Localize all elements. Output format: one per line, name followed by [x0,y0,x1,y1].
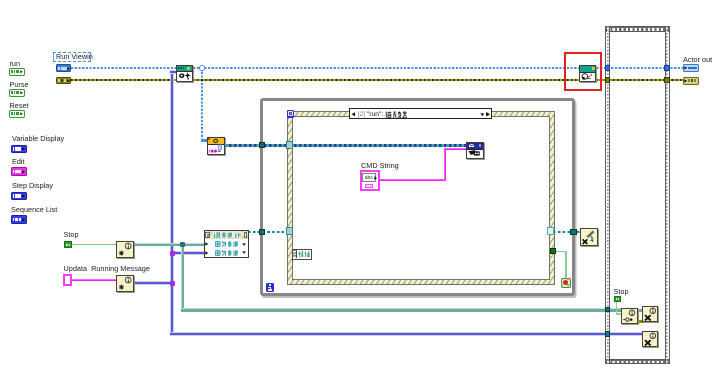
tunnel: sequence right blue [664,65,670,71]
wire: teal dashed reg refnum left of loop [248,231,288,233]
tunnel: loop right reg refnum [570,229,576,235]
wire: olive error wire horizontal [71,79,683,81]
event data node 新值 [292,249,312,260]
indicator: error out [683,77,699,85]
wire: pink CMD string horizontal [379,179,446,181]
op: Run actor vi [176,65,193,83]
wire: purple horizontal bottom to sequence [170,332,642,336]
tunnel: sequence left blue [605,65,611,71]
event structure border [287,111,555,285]
red highlight rectangle [564,52,602,91]
label: Sequence List [11,206,57,214]
control terminal: Variable Display I32 [11,145,27,153]
tunnel: loop left braided [259,142,265,148]
CMD String control terminal [360,170,380,190]
wire: pink CMD string vertical [444,148,446,181]
control terminal: Sequence List I32 [11,215,27,223]
loop stop condition terminal [561,278,571,288]
tunnel: loop left reg refnum [259,229,265,235]
wire: green stop to create-event-1 [71,244,116,245]
op: destroy user event upper [642,306,658,322]
label: Run Viewin [56,53,93,61]
wire: teal horizontal to sequence [181,308,622,311]
event structure timeout terminal [287,110,295,118]
wire: purple to register row2 [172,251,204,255]
op: red-marked caller vi [579,65,596,83]
flat sequence structure [605,26,670,32]
wire: pink updata to create-event-2 [71,279,116,281]
tunnel: sequence left purple wire [605,331,611,337]
label: Variable Display [12,135,64,143]
wire: blue dashed vertical branch [201,68,203,140]
wire: purple stub to Run vi [170,70,177,74]
label: Purse [10,81,29,89]
label: Edit [12,158,25,166]
error-in cluster terminal [56,77,72,84]
tunnel: event left dynamic event terminal [286,227,294,235]
wire: teal dashed reg refnum right of event [553,231,581,233]
control terminal: Updata Running Message string [63,274,73,287]
wire: purple from create-event-2 output [134,281,172,285]
wire: blue dashed actor wire horizontal [71,67,683,69]
wire: olive stub generate to destroy [637,320,643,322]
label: Updata Running Message [64,265,150,273]
while loop [260,98,575,296]
event selector label [349,108,492,119]
op: send message envelope vi [466,142,483,159]
control terminal: run [9,68,25,76]
control terminal: Edit [11,167,27,175]
control terminal: Reset [9,110,25,118]
label: Stop (sequence) [614,288,629,296]
stop boolean constant in sequence [614,296,621,303]
junction: blue hollow circle on actor wire [199,65,205,71]
wire: blue dashed bend into queue node [201,139,209,141]
control terminal: Stop boolean [64,241,72,248]
label: CMD String [361,162,399,170]
tunnel: sequence right olive [664,77,670,83]
wire: green to loop stop terminal horizontal [555,251,567,252]
wire: teal vertical branch [181,244,184,311]
junction: purple dot lower [170,281,174,285]
wire: pink CMD string top horizontal [444,148,467,150]
op: generate user event [621,308,638,324]
op: register for events [204,230,250,258]
Run Viewin refnum terminal [56,64,72,72]
wire: teal user-event from create-event-1 [134,243,204,246]
wire: braided class wire inside loop [224,144,467,146]
op: obtain queue gold node [207,137,224,155]
selection marquee around Run Viewin label [53,52,91,62]
wire: green stop const to generate event [616,301,617,314]
tunnel: event right dynamic event terminal [547,227,555,235]
label: Stop [64,231,79,239]
label: Actor out [683,56,712,64]
tunnel: sequence left olive [605,77,611,83]
op: destroy user event lower [642,331,658,347]
wire: green to loop stop terminal vertical [565,251,566,279]
op: create user event 1 [116,241,134,258]
junction: purple dot upper [170,251,174,255]
tunnel: event right green boolean [550,248,555,253]
label: Step Display [12,182,53,190]
wire: teal stub generate to destroy [637,309,643,312]
op: unregister for events [580,228,597,246]
label: Reset [10,102,29,110]
junction: teal dot [180,242,185,247]
op: create user event 2 [116,275,134,292]
tunnel: sequence left teal wire [605,307,611,313]
label: run [10,60,21,68]
control terminal: Step Display I32 [11,192,27,200]
tunnel: event left braided [286,141,294,149]
loop iteration terminal [266,283,275,292]
indicator: Actor out [683,64,699,72]
wire: purple user-event vertical [170,70,174,334]
control terminal: Purse [9,89,25,97]
